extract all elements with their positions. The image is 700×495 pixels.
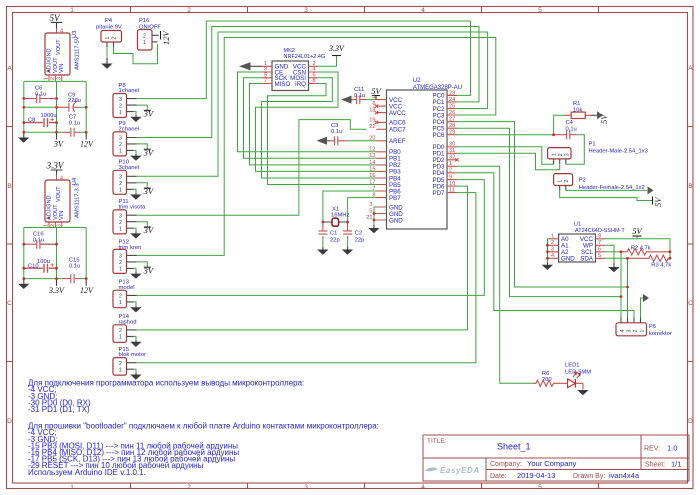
wire PD6 to P14.2 — [137, 186, 468, 330]
power flag 5V (top of U3) — [50, 13, 63, 29]
svg-text:3.3V: 3.3V — [328, 44, 345, 53]
ground (P12) — [130, 272, 141, 279]
svg-text:3V: 3V — [143, 225, 155, 235]
svg-text:2: 2 — [551, 240, 554, 246]
svg-text:Sheet:: Sheet: — [645, 462, 665, 469]
regulator U4 AMS1117-3.3 — [44, 175, 81, 228]
wire P4.1 to gnd — [106, 47, 108, 58]
svg-text:21: 21 — [366, 215, 372, 221]
capacitor C6 — [24, 86, 57, 103]
svg-text:GND: GND — [389, 217, 403, 224]
svg-text:1.0: 1.0 — [667, 444, 677, 453]
svg-text:220u: 220u — [68, 98, 81, 104]
wire PD5 to P13.2 — [137, 180, 485, 296]
svg-text:Company:: Company: — [490, 461, 522, 468]
svg-text:D: D — [688, 418, 693, 425]
svg-text:18: 18 — [369, 108, 375, 114]
svg-text:2: 2 — [119, 260, 122, 266]
russian note text block 1 — [28, 379, 379, 477]
wire U2 GND rail — [374, 207, 377, 225]
connector P6 korrektor — [616, 318, 672, 338]
svg-text:4: 4 — [551, 253, 554, 259]
svg-text:VIN: VIN — [59, 64, 65, 73]
connector P9 2chanel — [113, 121, 139, 156]
svg-text:2: 2 — [187, 484, 191, 491]
net label 3V (P12) — [143, 265, 155, 275]
resistor R2 4,7k — [621, 246, 670, 256]
wire P2.2 to port arrow — [566, 189, 647, 191]
svg-text:3: 3 — [119, 97, 122, 103]
ground (P13) — [130, 305, 141, 312]
svg-text:22p: 22p — [330, 238, 340, 244]
wire PD4 to P6.2 — [457, 173, 634, 318]
svg-text:AMS1117-5V: AMS1117-5V — [75, 36, 81, 70]
svg-text:R3 4,7k: R3 4,7k — [651, 262, 671, 268]
svg-text:Используем Arduino IDE v.1.0.1: Используем Arduino IDE v.1.0.1. — [28, 468, 146, 477]
svg-text:19: 19 — [369, 117, 375, 123]
svg-text:8: 8 — [372, 193, 375, 199]
wire MK2 CSN to PB3 — [256, 72, 377, 171]
net label 3.3V (network 2) — [48, 279, 65, 295]
svg-text:17: 17 — [369, 179, 375, 185]
ground (cap network 2) — [18, 279, 29, 289]
svg-text:2: 2 — [187, 7, 191, 14]
power flag 5V (P2.1) — [653, 196, 664, 207]
svg-text:26: 26 — [449, 110, 455, 116]
svg-text:Your Company: Your Company — [527, 459, 577, 468]
wire PC6 reset net — [457, 115, 564, 134]
svg-text:B: B — [688, 183, 692, 190]
wire P10.3 to PC2 top bus — [137, 32, 488, 176]
svg-text:PD7: PD7 — [432, 190, 445, 197]
svg-text:1: 1 — [449, 161, 452, 167]
svg-text:D: D — [7, 418, 12, 425]
svg-text:12V: 12V — [161, 30, 171, 46]
svg-text:U2: U2 — [413, 78, 421, 84]
svg-text:1: 1 — [558, 180, 564, 183]
port arrow (C11 gnd) — [341, 96, 352, 104]
svg-text:REV:: REV: — [644, 446, 660, 453]
svg-text:5: 5 — [538, 484, 542, 491]
svg-text:100u: 100u — [37, 259, 50, 265]
svg-text:2: 2 — [119, 220, 122, 226]
ground (P9) — [130, 154, 141, 161]
svg-text:3: 3 — [56, 77, 62, 80]
wire PD1 to P1.2 — [457, 153, 560, 170]
crystal X1 16MHz — [323, 206, 350, 226]
svg-text:1: 1 — [119, 149, 122, 155]
svg-text:2: 2 — [119, 361, 122, 367]
svg-text:1: 1 — [551, 234, 554, 240]
svg-text:3: 3 — [119, 136, 122, 142]
svg-text:3: 3 — [119, 213, 122, 219]
svg-text:VOUT: VOUT — [53, 204, 59, 220]
wire MK2 MOSI to PB4 — [262, 78, 377, 178]
svg-text:3V: 3V — [143, 147, 155, 157]
svg-text:SDA: SDA — [580, 256, 594, 263]
connector P14 rashod — [113, 314, 137, 342]
power flag 5V (U1 VCC) — [632, 226, 643, 236]
wire P6.1 to port arrow — [641, 298, 644, 318]
svg-text:12V: 12V — [80, 140, 94, 149]
svg-text:pitanie 9V: pitanie 9V — [96, 25, 122, 31]
wire AREF C3 — [348, 140, 377, 142]
ground (P10) — [130, 193, 141, 200]
svg-text:3.3V: 3.3V — [46, 160, 65, 170]
svg-text:3: 3 — [56, 224, 62, 227]
svg-text:9: 9 — [449, 175, 452, 181]
svg-text:4: 4 — [421, 7, 425, 14]
svg-text:LED-5MM: LED-5MM — [565, 370, 591, 376]
svg-text:VOUT: VOUT — [56, 186, 62, 202]
svg-text:5: 5 — [598, 253, 601, 259]
svg-text:5V: 5V — [50, 13, 62, 23]
wire U1 left pins gnd — [548, 239, 550, 263]
svg-text:3V: 3V — [143, 109, 155, 119]
svg-text:-31 PD1 (D1, TX): -31 PD1 (D1, TX) — [28, 405, 90, 414]
svg-text:korrektor: korrektor — [649, 331, 672, 337]
svg-text:2: 2 — [633, 330, 639, 333]
svg-text:7: 7 — [264, 78, 267, 84]
wire P13 pin1 — [134, 302, 137, 306]
connector P11 trim visota — [113, 199, 146, 234]
svg-text:C: C — [688, 300, 693, 307]
power flag 3.3V (top of U4) — [46, 160, 65, 174]
svg-text:1: 1 — [119, 188, 122, 194]
capacitor C3 — [330, 123, 348, 145]
svg-text:P6: P6 — [649, 324, 656, 330]
wire VCC C11 5V — [366, 99, 377, 101]
capacitor C9 — [57, 92, 81, 112]
svg-text:23: 23 — [449, 90, 455, 96]
svg-text:2: 2 — [50, 77, 56, 80]
svg-text:Для подключения программатора: Для подключения программатора используем… — [28, 379, 304, 388]
svg-text:30: 30 — [449, 142, 455, 148]
ground (P11) — [130, 232, 141, 239]
wire P12.3 to PC3 top bus — [137, 38, 496, 256]
port arrow (P2.2) — [648, 186, 654, 194]
svg-text:P1: P1 — [589, 142, 596, 148]
svg-text:1: 1 — [44, 77, 50, 80]
net label 12V (network 2) — [80, 279, 94, 295]
svg-text:13: 13 — [369, 153, 375, 159]
capacitor C10 — [24, 259, 57, 273]
svg-text:12: 12 — [369, 147, 375, 153]
svg-text:1000u: 1000u — [41, 113, 57, 119]
svg-text:25: 25 — [449, 103, 455, 109]
svg-text:A: A — [688, 65, 693, 72]
capacitor C11 — [352, 87, 366, 104]
wire cap network 1 rails — [24, 81, 86, 132]
svg-text:ADJ/GND: ADJ/GND — [47, 195, 53, 220]
net label 12V (P16) — [161, 30, 172, 46]
svg-text:AREF: AREF — [389, 138, 406, 145]
wire PB6 to crystal — [323, 191, 377, 222]
wire C4 to P1.3 — [566, 135, 585, 165]
svg-text:7: 7 — [372, 186, 375, 192]
ground (C2) — [342, 247, 353, 255]
svg-text:22: 22 — [369, 124, 375, 130]
svg-text:P2: P2 — [579, 178, 586, 184]
svg-text:Drawn By:: Drawn By: — [573, 473, 605, 480]
wire U1 SDA to R3 — [605, 257, 628, 259]
svg-text:3: 3 — [304, 484, 308, 491]
connector P4 pitanie 9V — [96, 18, 122, 47]
svg-text:0.1u: 0.1u — [331, 129, 342, 135]
wire MK2 VCC to 3.3V flag — [319, 56, 337, 66]
svg-text:IRQ: IRQ — [295, 81, 306, 88]
svg-text:0.1u: 0.1u — [354, 93, 365, 99]
svg-text:3: 3 — [551, 247, 554, 253]
wire P8 pin1 pin2 — [134, 105, 148, 115]
svg-text:U1: U1 — [574, 222, 581, 228]
svg-text:11: 11 — [449, 188, 455, 194]
svg-text:3V: 3V — [143, 265, 155, 275]
svg-text:EasyEDA: EasyEDA — [440, 466, 480, 475]
wire U1 SCL to R2 — [605, 251, 621, 253]
svg-text:1: 1 — [143, 40, 146, 46]
svg-text:AMS1117-3.3: AMS1117-3.3 — [75, 183, 81, 218]
svg-text:12V: 12V — [80, 286, 94, 295]
svg-text:8: 8 — [598, 234, 601, 240]
wire C1 lower lead — [322, 239, 324, 247]
svg-text:VOUT: VOUT — [56, 39, 62, 55]
svg-text:3: 3 — [119, 175, 122, 181]
svg-text:31: 31 — [449, 148, 455, 154]
wire P11.3 to ADC7 — [137, 120, 367, 216]
svg-text:Sheet_1: Sheet_1 — [497, 442, 531, 452]
connector P1 Header-Male-2.54_1x3 — [548, 142, 648, 165]
svg-text:1: 1 — [44, 224, 50, 227]
resistor R1 10k — [564, 101, 592, 119]
svg-text:1: 1 — [119, 367, 122, 373]
svg-text:Date:: Date: — [490, 473, 507, 480]
capacitor C8 — [24, 113, 57, 127]
svg-text:1: 1 — [105, 37, 111, 40]
wire P14 pin1 — [134, 336, 137, 340]
svg-text:MISO: MISO — [275, 81, 291, 88]
svg-text:C8: C8 — [28, 118, 35, 124]
port arrow GND (MK2 pin1) — [239, 62, 262, 70]
svg-text:22p: 22p — [355, 238, 365, 244]
svg-text:6: 6 — [372, 101, 375, 107]
svg-text:4: 4 — [372, 95, 375, 101]
svg-text:3.3V: 3.3V — [48, 286, 65, 295]
svg-text:2019-04-13: 2019-04-13 — [517, 471, 555, 480]
ground (P15) — [130, 373, 141, 380]
svg-text:1: 1 — [552, 153, 558, 156]
ground (C1) — [317, 247, 328, 255]
svg-text:1: 1 — [70, 484, 74, 491]
svg-text:29: 29 — [449, 130, 455, 136]
port arrow (P6.1) — [643, 294, 649, 302]
svg-text:C2: C2 — [355, 231, 362, 237]
svg-text:3V: 3V — [53, 140, 64, 149]
svg-text:1: 1 — [639, 330, 645, 333]
svg-text:C1: C1 — [330, 231, 337, 237]
power flag 5V (C11) — [371, 86, 382, 100]
resistor R6 200 — [533, 371, 562, 386]
svg-text:27: 27 — [449, 117, 455, 123]
svg-text:ADC7: ADC7 — [389, 127, 406, 134]
wire P15 pin1 — [134, 369, 137, 373]
svg-text:1: 1 — [119, 267, 122, 273]
power flag 3.3V (MK2) — [328, 44, 345, 56]
unconnected pin marks — [375, 104, 459, 161]
svg-text:C4: C4 — [566, 120, 574, 126]
wire SCL net to P6.4 (PC5) — [457, 128, 621, 317]
wire PD7 to P15.2 — [137, 193, 476, 363]
svg-text:3: 3 — [304, 7, 308, 14]
capacitor C1 22p — [318, 222, 339, 244]
regulator U3 AMS1117-5V — [44, 29, 81, 82]
wire P8.3 to PC0 top bus — [137, 21, 471, 99]
svg-text:15: 15 — [369, 166, 375, 172]
svg-text:2: 2 — [119, 181, 122, 187]
svg-text:16MHz: 16MHz — [331, 212, 349, 218]
ground (U1 left pins) — [542, 263, 553, 270]
connector P13 model — [113, 279, 137, 307]
svg-text:R1: R1 — [573, 101, 580, 107]
svg-text:1: 1 — [119, 110, 122, 116]
net label 3V (network 1) — [53, 132, 64, 148]
wire MK2 SCK to PB1 — [244, 78, 377, 159]
svg-text:Для прошивки "bootloader" подк: Для прошивки "bootloader" подключаем к л… — [28, 422, 379, 431]
svg-text:32: 32 — [449, 155, 455, 161]
svg-text:1: 1 — [70, 7, 74, 14]
svg-text:0.1u: 0.1u — [566, 126, 577, 132]
connector P10 3chanel — [113, 160, 139, 195]
svg-text:0.1u: 0.1u — [35, 92, 46, 98]
svg-text:ivan4x4a: ivan4x4a — [609, 471, 640, 480]
svg-text:A: A — [7, 65, 12, 72]
capacitor C7 — [62, 115, 80, 137]
ground (cap network 1) — [18, 132, 29, 142]
wire C2 lower lead — [347, 239, 349, 247]
eeprom U1 AT24C64D-SSHM-T — [549, 222, 625, 263]
svg-text:1: 1 — [119, 300, 122, 306]
svg-text:Header-Female-2.54_1x2: Header-Female-2.54_1x2 — [579, 185, 645, 191]
svg-text:AVCC: AVCC — [389, 110, 406, 117]
svg-text:GND: GND — [561, 256, 575, 263]
wire U1 VCC 5V rail — [605, 236, 670, 258]
net label 3V (P10) — [143, 186, 155, 196]
svg-text:0.1u: 0.1u — [69, 121, 80, 127]
wire P9.3 to PC1 top bus — [137, 27, 480, 138]
wire P12 pin1 pin2 — [134, 262, 148, 272]
svg-text:4: 4 — [620, 330, 626, 333]
wire SDA net to P6.3 (PC4) — [457, 122, 628, 318]
capacitor C16 — [24, 231, 57, 248]
svg-text:VOUT: VOUT — [53, 57, 59, 73]
wire U1 WP to gnd — [605, 245, 614, 263]
wire PD3 to R6 LED — [457, 166, 533, 383]
svg-text:PC6: PC6 — [432, 132, 445, 139]
ground (U2 GND pins) — [368, 225, 379, 233]
svg-text:2: 2 — [119, 328, 122, 334]
wire PB7 to crystal — [348, 198, 377, 220]
svg-text:8: 8 — [313, 78, 316, 84]
svg-text:2: 2 — [111, 37, 117, 40]
wire P2.1 to 5V flag — [560, 190, 653, 200]
svg-text:3: 3 — [369, 202, 372, 208]
svg-text:TITLE:: TITLE: — [427, 438, 447, 445]
net label 3V (P9) — [143, 147, 155, 157]
svg-text:2: 2 — [558, 153, 564, 156]
svg-text:14: 14 — [369, 160, 375, 166]
ground (LED1) — [577, 390, 588, 395]
svg-text:0.1u: 0.1u — [69, 263, 80, 269]
connector P12 trim kren — [113, 239, 141, 273]
svg-text:6: 6 — [598, 247, 601, 253]
connector P16 ON/OFF — [138, 18, 162, 50]
connector P15 blok motor — [113, 347, 146, 375]
connector P2 Header-Female-2.54_1x2 — [554, 174, 645, 192]
svg-text:2: 2 — [119, 142, 122, 148]
svg-text:2: 2 — [50, 224, 56, 227]
svg-text:P4: P4 — [105, 18, 113, 24]
svg-text:NRF24L01+2.4G: NRF24L01+2.4G — [284, 54, 326, 60]
svg-text:3: 3 — [565, 153, 571, 156]
wire MK2 CE to PB0 — [238, 72, 377, 152]
svg-text:3: 3 — [626, 330, 632, 333]
resistor R3 4,7k — [628, 255, 672, 268]
wire P11 pin1 pin2 — [134, 222, 148, 232]
ground (P4) — [101, 58, 112, 69]
module MK2 NRF24L01+2.4G — [262, 48, 325, 91]
capacitor C2 22p — [343, 220, 364, 244]
ground (P8) — [130, 115, 141, 122]
svg-text:16: 16 — [369, 173, 375, 179]
svg-text:2: 2 — [119, 294, 122, 300]
wire P10 pin1 pin2 — [134, 183, 148, 193]
net label 3V (P11) — [143, 225, 155, 235]
wire PD0 to P1.1 — [457, 147, 554, 164]
power flag 5V arrow (R1) — [592, 111, 609, 124]
wire MK2 IRQ to PB5 — [268, 84, 377, 185]
title block — [423, 435, 689, 481]
svg-text:1: 1 — [119, 335, 122, 341]
svg-text:LED1: LED1 — [565, 363, 580, 369]
svg-text:Header-Male-2.54_1x3: Header-Male-2.54_1x3 — [589, 149, 648, 155]
wire P9 pin1 pin2 — [134, 144, 148, 154]
connector P8 1chanel — [113, 83, 139, 118]
svg-text:VIN: VIN — [59, 211, 65, 220]
ground (P14) — [130, 340, 141, 347]
svg-text:20: 20 — [369, 136, 375, 142]
svg-text:3V: 3V — [143, 186, 155, 196]
svg-text:2: 2 — [119, 103, 122, 109]
svg-text:2: 2 — [449, 168, 452, 174]
svg-text:0.1u: 0.1u — [33, 237, 44, 243]
svg-text:24: 24 — [449, 97, 455, 103]
wire MK2 MISO to PB2 — [250, 84, 377, 165]
wire cap network 2 rails — [24, 228, 86, 279]
svg-text:PB7: PB7 — [389, 195, 401, 202]
wire P4.2 P16.1 loop — [114, 44, 158, 64]
svg-text:4: 4 — [421, 484, 425, 491]
mcu U2 ATMEGA328P-AU — [366, 78, 462, 229]
svg-text:3: 3 — [119, 254, 122, 260]
svg-text:5: 5 — [369, 208, 372, 214]
port arrow (C3 gnd) — [317, 137, 331, 145]
svg-text:2: 2 — [564, 180, 570, 183]
net label 12V (network 1) — [80, 132, 94, 148]
svg-text:2: 2 — [143, 34, 146, 40]
svg-text:10: 10 — [449, 181, 455, 187]
capacitor C4 — [554, 120, 577, 139]
svg-text:1/1: 1/1 — [671, 460, 681, 469]
